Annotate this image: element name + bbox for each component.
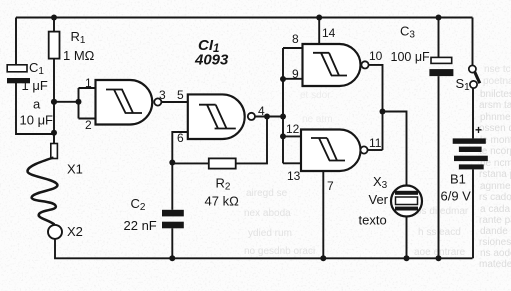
pin7 ground wire [322, 171, 324, 258]
switch S1 [469, 18, 480, 139]
junction: gate CI1-a input bracket [76, 99, 82, 105]
svg-text:+: + [475, 123, 482, 137]
svg-text:9: 9 [292, 67, 299, 81]
svg-text:6: 6 [177, 131, 184, 145]
node A wire down to X1 [53, 102, 55, 144]
wire left border down to C1 [15, 18, 17, 66]
svg-text:agnme d: agnme d [480, 181, 511, 192]
input bus to gates 3/4 [283, 48, 303, 163]
svg-text:rs cado: rs cado [479, 192, 511, 203]
resistor R2 with feedback wires [172, 117, 267, 169]
svg-text:8: 8 [292, 32, 299, 46]
svg-text:B1: B1 [450, 172, 466, 187]
svg-text:texto: texto [359, 213, 387, 228]
junction: R1 top on V+ rail [51, 15, 57, 21]
svg-text:ns aode: ns aode [480, 248, 511, 259]
NAND Schmitt gate CI1-c (pins 8,9 -> 10) [303, 44, 361, 86]
NAND Schmitt gate CI1-d (pins 12,13 -> 11) [301, 130, 361, 172]
svg-text:12: 12 [286, 122, 300, 136]
pin14 supply wire [318, 18, 320, 45]
svg-text:1: 1 [85, 76, 92, 90]
capacitor C1 [7, 65, 30, 84]
wire node a to gate1 inputs bracket [54, 88, 96, 119]
gate CI1-d output bubble, pin 11 [360, 146, 367, 153]
svg-text:rsiones: rsiones [479, 237, 511, 248]
terminal box of X1 [51, 144, 58, 159]
svg-text:no gesdnb oraci: no gesdnb oraci [244, 246, 315, 257]
NAND Schmitt gate CI1-b (pins 5,6 -> 4) [188, 94, 245, 139]
node a (R1 / C1 / gate inputs) [51, 99, 57, 105]
junction: X3 bottom on ground rail [404, 255, 410, 261]
probe X2 circle [48, 225, 62, 239]
gate CI1-c output bubble, pin 10 [361, 61, 368, 68]
svg-text:7: 7 [327, 179, 334, 193]
svg-text:ydied rum: ydied rum [248, 228, 292, 239]
svg-text:ossen qu: ossen qu [479, 123, 511, 134]
svg-text:a: a [33, 97, 41, 112]
wire node to X3 [383, 112, 407, 186]
transducer X3 [391, 186, 422, 259]
svg-text:phnmeso: phnmeso [480, 112, 511, 123]
svg-text:dande e: dande e [480, 226, 511, 237]
junction: pin 12 stub on input bus [280, 133, 286, 139]
junction: pin 9 stub on input bus [280, 76, 286, 82]
junction: C3 bottom on ground rail [436, 255, 442, 261]
svg-text:rstana pr: rstana pr [479, 169, 511, 180]
wire pin6 stub to RC node [172, 132, 188, 163]
junction: pin 4 wire on input bus [280, 114, 286, 120]
svg-text:et sdor: et sdor [300, 90, 331, 101]
junction: pins 10/11 output node to X3 [380, 109, 386, 115]
wire C1 bottom to node below a [16, 83, 54, 134]
wire pin10 down to output node [368, 65, 382, 150]
svg-text:arsm tal: arsm tal [479, 100, 511, 111]
svg-text:3: 3 [159, 88, 166, 102]
svg-text:6/9 V: 6/9 V [441, 189, 472, 204]
antenna X1 squiggle [27, 158, 57, 225]
wire X2 to bottom rail [55, 239, 473, 258]
svg-text:10 μF: 10 μF [20, 113, 54, 128]
svg-text:1 μF: 1 μF [22, 78, 48, 93]
svg-text:4093: 4093 [194, 52, 229, 69]
svg-text:10: 10 [369, 49, 383, 63]
svg-text:X1: X1 [67, 162, 83, 177]
svg-text:a cada p: a cada p [480, 204, 511, 215]
gate CI1-a output bubble, pin 3 [154, 98, 161, 105]
wire pin3 to pin5 [161, 101, 188, 103]
gate CI1-b output bubble, pin 4 [248, 113, 255, 120]
wire top supply rail [16, 17, 473, 19]
resistor R1 [49, 18, 60, 102]
svg-text:te ncorp: te ncorp [479, 146, 511, 157]
junction: C1 bottom / X1 top [51, 130, 57, 136]
svg-text:13: 13 [287, 169, 301, 183]
capacitor C3 [429, 18, 453, 259]
junction: C2 bottom on ground rail [169, 255, 175, 261]
svg-text:os di edmar: os di edmar [416, 206, 469, 217]
svg-text:47 kΩ: 47 kΩ [205, 194, 240, 209]
svg-text:poetna: poetna [483, 76, 511, 87]
svg-text:nse tc: nse tc [484, 64, 511, 75]
capacitor C2 [162, 163, 184, 259]
junction: pin 4 output / R2 feedback [264, 114, 270, 120]
svg-text:22 nF: 22 nF [124, 218, 157, 233]
junction: C3 top on V+ rail [436, 15, 442, 21]
junction: pin 14 on V+ rail [316, 15, 322, 21]
svg-text:4: 4 [258, 104, 265, 118]
junction: pin 6 / R2 / C2 node [169, 160, 175, 166]
svg-text:5: 5 [177, 88, 184, 102]
svg-text:ne atm: ne atm [302, 114, 333, 125]
battery B1 [453, 138, 488, 258]
svg-text:nex aboda: nex aboda [244, 208, 291, 219]
svg-text:2: 2 [85, 118, 92, 132]
svg-text:Ver: Ver [369, 192, 389, 207]
svg-text:matede: matede [479, 259, 511, 270]
svg-text:rante pa: rante pa [479, 215, 511, 226]
svg-text:100 μF: 100 μF [391, 50, 431, 64]
svg-text:bnilctes: bnilctes [480, 89, 511, 100]
wire pin4 to bus [255, 116, 283, 118]
NAND Schmitt gate CI1-a (pins 1,2 -> 3) [96, 80, 153, 125]
svg-text:X2: X2 [67, 224, 83, 239]
svg-text:airegd se: airegd se [246, 188, 288, 199]
wire pin11 to node [367, 149, 382, 151]
svg-text:11: 11 [369, 136, 382, 150]
svg-text:14: 14 [322, 26, 336, 40]
svg-text:1 MΩ: 1 MΩ [63, 48, 95, 63]
junction: pin 7 on ground rail [320, 255, 326, 261]
